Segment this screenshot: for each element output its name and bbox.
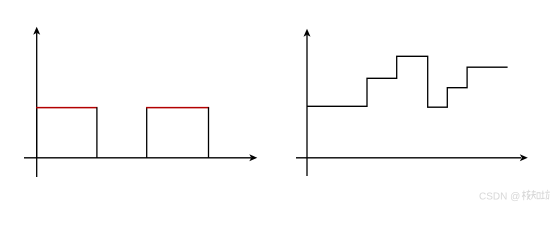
staircase signal [307,56,508,107]
pulse 2 [146,107,209,158]
left plot x-axis [24,154,257,161]
watermark [479,183,556,206]
glyph 知 [531,190,540,199]
glyph 核 [522,190,530,200]
svg-text:CSDN @: CSDN @ [479,192,520,203]
pulse 1 [36,107,97,158]
right plot x-axis [296,154,528,161]
left plot y-axis [33,27,40,177]
glyph 坊 [541,190,550,200]
right plot y-axis [304,29,311,176]
